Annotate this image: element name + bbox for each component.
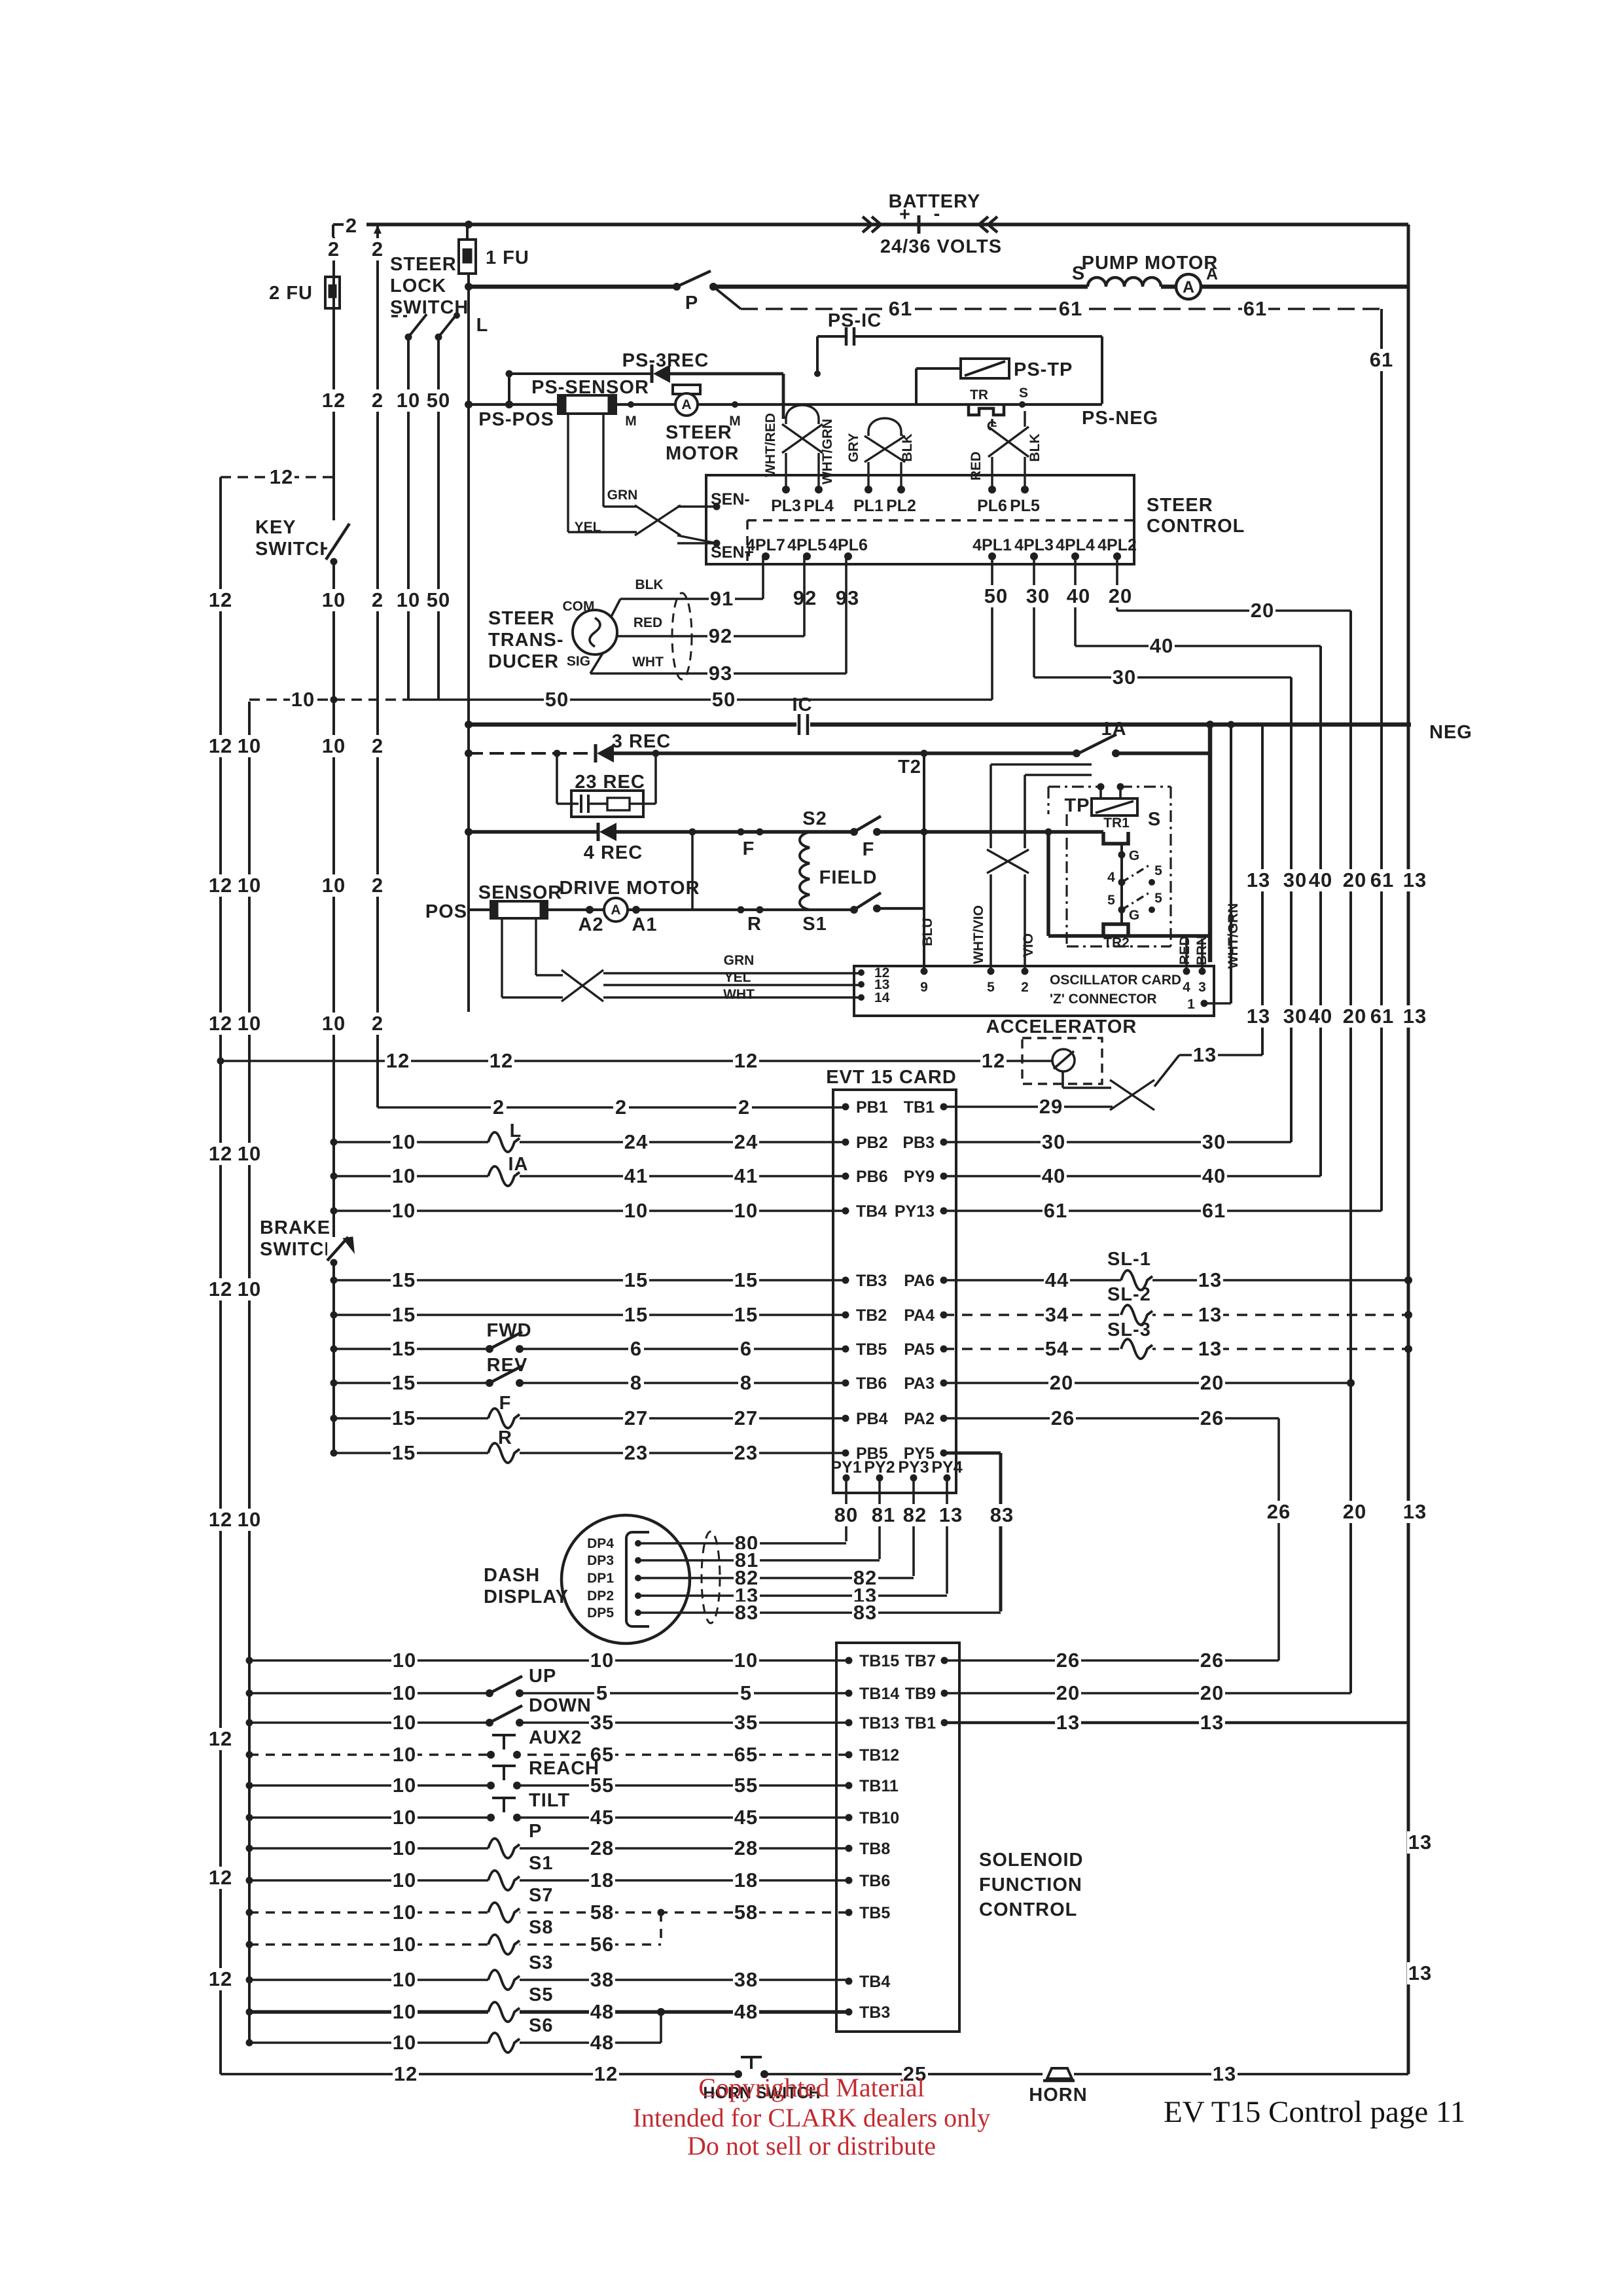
svg-text:TB6: TB6 [856, 1374, 887, 1393]
svg-text:10: 10 [393, 1806, 416, 1829]
svg-text:10: 10 [393, 1968, 416, 1991]
svg-text:CONTROL: CONTROL [979, 1899, 1077, 1920]
svg-text:2: 2 [372, 874, 383, 897]
svg-text:PB6: PB6 [856, 1168, 888, 1186]
svg-text:12: 12 [209, 734, 232, 757]
svg-text:3 REC: 3 REC [612, 731, 671, 752]
svg-text:40: 40 [1042, 1164, 1065, 1187]
svg-text:15: 15 [392, 1303, 416, 1326]
svg-text:SWITCH: SWITCH [260, 1239, 338, 1260]
svg-text:IC: IC [793, 694, 813, 715]
svg-text:10: 10 [238, 1142, 261, 1165]
svg-text:8: 8 [740, 1371, 752, 1394]
svg-text:15: 15 [392, 1337, 416, 1360]
svg-text:10: 10 [393, 1711, 416, 1734]
svg-text:2 FU: 2 FU [269, 283, 313, 304]
svg-text:4PL2: 4PL2 [1097, 536, 1137, 554]
svg-text:20: 20 [1343, 1500, 1366, 1523]
svg-text:10: 10 [238, 734, 261, 757]
svg-text:40: 40 [1067, 584, 1090, 607]
svg-text:PY3: PY3 [898, 1458, 929, 1477]
svg-text:TB6: TB6 [859, 1872, 890, 1890]
svg-text:24: 24 [624, 1130, 648, 1153]
svg-text:10: 10 [393, 1743, 416, 1766]
svg-text:S1: S1 [529, 1853, 553, 1874]
svg-text:PA4: PA4 [904, 1306, 935, 1325]
svg-text:MOTOR: MOTOR [666, 443, 739, 464]
svg-text:Do not sell or distribute: Do not sell or distribute [687, 2131, 936, 2161]
svg-text:PA2: PA2 [904, 1410, 935, 1428]
svg-text:50: 50 [984, 584, 1008, 607]
svg-text:13: 13 [939, 1503, 963, 1526]
svg-text:4: 4 [1183, 980, 1190, 995]
svg-text:PL5: PL5 [1010, 497, 1040, 515]
svg-text:20: 20 [1200, 1371, 1224, 1394]
svg-text:DASH: DASH [484, 1565, 540, 1586]
svg-text:P: P [685, 293, 698, 314]
svg-text:S6: S6 [529, 2015, 553, 2036]
svg-text:POS: POS [425, 901, 467, 922]
svg-text:DP5: DP5 [587, 1605, 614, 1621]
svg-text:8: 8 [630, 1371, 642, 1394]
svg-text:TRANS-: TRANS- [488, 630, 564, 651]
svg-text:A1: A1 [632, 914, 657, 935]
svg-text:14: 14 [874, 990, 890, 1005]
svg-text:10: 10 [238, 874, 261, 897]
svg-text:TILT: TILT [529, 1790, 570, 1811]
svg-text:2: 2 [372, 734, 383, 757]
svg-text:R: R [747, 914, 762, 935]
svg-text:TR: TR [970, 387, 988, 403]
svg-text:10: 10 [393, 1681, 416, 1704]
svg-text:15: 15 [392, 1371, 416, 1394]
svg-text:40: 40 [1309, 1005, 1332, 1028]
svg-text:KEY: KEY [255, 517, 296, 538]
svg-text:PA3: PA3 [904, 1374, 935, 1393]
svg-text:S: S [1019, 386, 1028, 401]
svg-text:CONTROL: CONTROL [1147, 516, 1245, 537]
svg-text:23 REC: 23 REC [575, 772, 645, 793]
svg-text:M: M [625, 414, 637, 429]
svg-text:WHT: WHT [632, 655, 664, 670]
svg-text:1A: 1A [1101, 719, 1126, 740]
svg-text:12: 12 [386, 1049, 410, 1072]
svg-text:23: 23 [734, 1441, 758, 1464]
svg-text:SL-2: SL-2 [1107, 1284, 1151, 1305]
svg-text:TR1: TR1 [1103, 816, 1130, 831]
svg-text:TB5: TB5 [856, 1340, 887, 1359]
svg-text:20: 20 [1343, 869, 1366, 891]
svg-text:10: 10 [393, 1869, 416, 1892]
svg-text:12: 12 [209, 1012, 232, 1035]
svg-text:48: 48 [734, 2000, 758, 2023]
svg-text:4: 4 [1107, 870, 1115, 885]
svg-text:15: 15 [734, 1268, 758, 1291]
svg-text:26: 26 [1056, 1649, 1080, 1672]
svg-text:STEER: STEER [390, 254, 457, 275]
svg-text:PS-SENSOR: PS-SENSOR [531, 377, 649, 398]
svg-text:30: 30 [1113, 666, 1136, 689]
svg-text:YEL: YEL [724, 970, 751, 985]
svg-text:5: 5 [740, 1681, 752, 1704]
svg-text:PL6: PL6 [977, 497, 1007, 515]
svg-text:STEER: STEER [666, 422, 732, 443]
svg-text:10: 10 [397, 588, 420, 611]
svg-text:DRIVE MOTOR: DRIVE MOTOR [559, 878, 700, 899]
svg-text:PA6: PA6 [904, 1272, 935, 1290]
svg-text:12: 12 [394, 2062, 418, 2085]
svg-text:30: 30 [1283, 869, 1307, 891]
svg-text:5: 5 [596, 1681, 608, 1704]
svg-text:12: 12 [734, 1049, 758, 1072]
svg-text:38: 38 [734, 1968, 758, 1991]
svg-text:81: 81 [872, 1503, 895, 1526]
svg-text:S7: S7 [529, 1885, 553, 1906]
svg-text:18: 18 [734, 1869, 758, 1892]
svg-text:10: 10 [734, 1649, 758, 1672]
svg-text:12: 12 [594, 2062, 618, 2085]
svg-text:SIG: SIG [567, 654, 590, 669]
svg-text:91: 91 [710, 587, 734, 610]
svg-text:4 REC: 4 REC [584, 842, 643, 863]
svg-text:PY9: PY9 [904, 1168, 935, 1186]
svg-text:26: 26 [1200, 1649, 1224, 1672]
svg-text:2: 2 [493, 1096, 505, 1119]
svg-text:SWITCH: SWITCH [255, 539, 334, 560]
svg-text:10: 10 [393, 1649, 416, 1672]
svg-text:20: 20 [1050, 1371, 1073, 1394]
svg-text:PY1: PY1 [830, 1458, 861, 1477]
svg-text:10: 10 [238, 1012, 261, 1035]
svg-text:FWD: FWD [486, 1320, 531, 1341]
svg-text:45: 45 [590, 1806, 614, 1829]
svg-text:PS-3REC: PS-3REC [622, 350, 709, 371]
svg-text:4PL7: 4PL7 [746, 536, 785, 554]
svg-text:2: 2 [346, 214, 357, 237]
svg-text:PA5: PA5 [904, 1340, 935, 1359]
svg-text:AUX2: AUX2 [529, 1727, 582, 1748]
svg-text:2: 2 [328, 238, 340, 260]
svg-text:29: 29 [1039, 1095, 1063, 1118]
svg-text:TB4: TB4 [856, 1202, 887, 1221]
svg-text:ACCELERATOR: ACCELERATOR [986, 1016, 1137, 1037]
svg-text:EV T15 Control page 11: EV T15 Control page 11 [1164, 2095, 1465, 2129]
svg-text:45: 45 [734, 1806, 758, 1829]
svg-text:G: G [1129, 908, 1139, 923]
svg-text:40: 40 [1309, 869, 1332, 891]
svg-text:R: R [498, 1427, 512, 1448]
svg-text:A: A [1183, 278, 1194, 296]
svg-text:30: 30 [1026, 584, 1050, 607]
svg-text:93: 93 [709, 662, 732, 685]
svg-text:DISPLAY: DISPLAY [484, 1587, 569, 1607]
svg-text:10: 10 [734, 1199, 758, 1222]
svg-text:PY4: PY4 [931, 1458, 962, 1477]
svg-text:DP4: DP4 [587, 1536, 614, 1551]
svg-text:FUNCTION: FUNCTION [979, 1874, 1082, 1895]
svg-text:61: 61 [1370, 1005, 1394, 1028]
svg-text:13: 13 [1198, 1303, 1222, 1326]
svg-text:F: F [499, 1393, 512, 1414]
svg-text:S2: S2 [802, 808, 827, 829]
svg-text:56: 56 [590, 1933, 614, 1956]
svg-text:OSCILLATOR CARD: OSCILLATOR CARD [1050, 973, 1181, 988]
svg-text:STEER: STEER [488, 608, 555, 629]
svg-text:61: 61 [1044, 1199, 1067, 1222]
svg-text:S3: S3 [529, 1952, 553, 1973]
svg-text:20: 20 [1200, 1681, 1224, 1704]
svg-text:PS-IC: PS-IC [828, 310, 882, 331]
svg-text:PS-NEG: PS-NEG [1082, 408, 1158, 429]
svg-text:NEG: NEG [1429, 722, 1472, 743]
svg-text:HORN: HORN [1029, 2085, 1087, 2106]
svg-text:BLU: BLU [920, 918, 935, 946]
svg-text:GRY: GRY [846, 433, 861, 463]
svg-text:34: 34 [1045, 1303, 1069, 1326]
svg-text:UP: UP [529, 1666, 556, 1687]
svg-text:41: 41 [624, 1164, 648, 1187]
svg-text:PL3: PL3 [771, 497, 801, 515]
svg-text:10: 10 [322, 588, 346, 611]
svg-text:4PL5: 4PL5 [787, 536, 827, 554]
svg-text:S8: S8 [529, 1917, 553, 1938]
svg-text:DOWN: DOWN [529, 1695, 592, 1716]
svg-text:T2: T2 [898, 757, 921, 778]
svg-text:13: 13 [1408, 1962, 1432, 1984]
svg-text:10: 10 [590, 1649, 614, 1672]
svg-text:12: 12 [209, 1727, 232, 1750]
svg-text:GRN: GRN [724, 953, 755, 968]
svg-text:12: 12 [322, 389, 346, 412]
svg-text:WHT/VIO: WHT/VIO [971, 905, 986, 964]
svg-text:EVT 15 CARD: EVT 15 CARD [826, 1067, 957, 1088]
svg-text:10: 10 [392, 1130, 416, 1153]
svg-text:13: 13 [1198, 1268, 1222, 1291]
svg-text:12: 12 [209, 1508, 232, 1531]
svg-text:23: 23 [624, 1441, 648, 1464]
svg-text:26: 26 [1051, 1407, 1075, 1429]
svg-text:PL1: PL1 [853, 497, 883, 515]
svg-text:9: 9 [920, 980, 928, 995]
svg-text:40: 40 [1202, 1164, 1226, 1187]
svg-text:A: A [681, 397, 691, 412]
svg-text:PB1: PB1 [856, 1098, 888, 1117]
svg-text:4PL1: 4PL1 [972, 536, 1012, 554]
svg-text:15: 15 [624, 1303, 648, 1326]
svg-text:10: 10 [322, 1012, 346, 1035]
svg-text:PY13: PY13 [895, 1202, 935, 1221]
svg-text:DUCER: DUCER [488, 651, 559, 672]
svg-text:10: 10 [238, 1508, 261, 1531]
svg-text:15: 15 [624, 1268, 648, 1291]
svg-text:TB3: TB3 [859, 2003, 890, 2022]
svg-text:48: 48 [590, 2031, 614, 2054]
svg-text:4PL6: 4PL6 [829, 536, 868, 554]
svg-text:TB2: TB2 [856, 1306, 887, 1325]
svg-text:20: 20 [1109, 584, 1132, 607]
svg-text:PB3: PB3 [902, 1134, 935, 1152]
svg-text:12: 12 [209, 874, 232, 897]
svg-text:15: 15 [392, 1441, 416, 1464]
svg-text:58: 58 [590, 1901, 614, 1924]
svg-text:10: 10 [322, 874, 346, 897]
svg-text:PL2: PL2 [886, 497, 916, 515]
svg-text:82: 82 [903, 1503, 927, 1526]
svg-text:6: 6 [740, 1337, 752, 1360]
svg-text:12: 12 [209, 1278, 232, 1300]
svg-text:61: 61 [889, 297, 912, 320]
svg-text:TP: TP [1064, 795, 1090, 816]
svg-text:41: 41 [734, 1164, 758, 1187]
svg-text:44: 44 [1045, 1268, 1069, 1291]
svg-text:REV: REV [487, 1355, 528, 1376]
svg-text:10: 10 [393, 1837, 416, 1859]
svg-text:13: 13 [1198, 1337, 1222, 1360]
svg-text:G: G [1129, 848, 1139, 863]
svg-text:61: 61 [1243, 297, 1267, 320]
svg-text:54: 54 [1045, 1337, 1069, 1360]
svg-text:TB11: TB11 [859, 1777, 899, 1795]
svg-text:27: 27 [734, 1407, 758, 1429]
svg-text:2: 2 [372, 238, 383, 260]
svg-text:2: 2 [1021, 980, 1029, 995]
svg-text:13: 13 [1247, 1005, 1270, 1028]
svg-text:2: 2 [738, 1096, 750, 1119]
svg-text:15: 15 [392, 1407, 416, 1429]
svg-text:2: 2 [615, 1096, 627, 1119]
svg-text:LOCK: LOCK [390, 276, 446, 296]
svg-text:COM: COM [563, 599, 595, 614]
svg-text:PB2: PB2 [856, 1134, 888, 1152]
svg-text:27: 27 [624, 1407, 648, 1429]
svg-text:30: 30 [1283, 1005, 1307, 1028]
svg-text:40: 40 [1150, 634, 1173, 657]
svg-text:6: 6 [630, 1337, 642, 1360]
svg-text:26: 26 [1200, 1407, 1224, 1429]
svg-text:L: L [476, 315, 489, 336]
svg-text:P: P [529, 1821, 542, 1842]
svg-text:2: 2 [372, 588, 383, 611]
svg-text:61: 61 [1202, 1199, 1226, 1222]
svg-text:13: 13 [1247, 869, 1270, 891]
svg-text:FIELD: FIELD [819, 867, 878, 888]
svg-text:50: 50 [427, 588, 450, 611]
svg-text:PY2: PY2 [864, 1458, 895, 1477]
svg-text:PS-POS: PS-POS [478, 409, 554, 430]
svg-text:58: 58 [734, 1901, 758, 1924]
svg-text:F: F [863, 839, 875, 860]
svg-text:A: A [611, 903, 620, 918]
svg-text:BATTERY: BATTERY [889, 191, 981, 212]
svg-text:2: 2 [372, 389, 383, 412]
svg-text:TR2: TR2 [1103, 935, 1130, 950]
svg-text:12: 12 [982, 1049, 1005, 1072]
svg-text:30: 30 [1202, 1130, 1226, 1153]
svg-text:13: 13 [1403, 1500, 1427, 1523]
svg-text:1 FU: 1 FU [486, 247, 529, 268]
svg-text:10: 10 [322, 734, 346, 757]
svg-text:BLK: BLK [1027, 433, 1043, 461]
svg-text:F: F [743, 838, 755, 859]
svg-text:26: 26 [1267, 1500, 1291, 1523]
svg-text:S: S [1148, 809, 1161, 830]
svg-text:12: 12 [209, 1866, 232, 1889]
svg-text:TB7: TB7 [905, 1652, 936, 1670]
svg-text:5: 5 [1154, 891, 1162, 906]
svg-text:12: 12 [209, 1967, 232, 1990]
svg-text:30: 30 [1042, 1130, 1065, 1153]
svg-text:13: 13 [1403, 869, 1427, 891]
svg-text:10: 10 [393, 1774, 416, 1797]
svg-text:YEL: YEL [575, 520, 601, 535]
svg-text:3: 3 [1198, 980, 1206, 995]
svg-text:BLK: BLK [635, 577, 663, 592]
svg-text:PUMP MOTOR: PUMP MOTOR [1082, 253, 1219, 274]
svg-text:80: 80 [834, 1503, 858, 1526]
svg-text:TB5: TB5 [859, 1904, 890, 1922]
svg-text:35: 35 [734, 1711, 758, 1734]
svg-text:35: 35 [590, 1711, 614, 1734]
svg-text:REACH: REACH [529, 1758, 599, 1779]
svg-text:83: 83 [990, 1503, 1014, 1526]
svg-text:50: 50 [712, 688, 736, 711]
svg-text:S5: S5 [529, 1984, 553, 2005]
svg-text:61: 61 [1370, 348, 1393, 371]
svg-text:10: 10 [393, 2000, 416, 2023]
svg-text:61: 61 [1059, 297, 1082, 320]
svg-text:STEER: STEER [1147, 495, 1213, 516]
svg-text:TB1: TB1 [905, 1714, 936, 1732]
svg-text:A2: A2 [578, 914, 603, 935]
svg-text:5: 5 [1107, 893, 1115, 908]
svg-text:TB12: TB12 [859, 1746, 899, 1765]
svg-text:RED: RED [633, 615, 662, 630]
svg-text:15: 15 [392, 1268, 416, 1291]
svg-text:13: 13 [1403, 1005, 1427, 1028]
svg-text:12: 12 [490, 1049, 513, 1072]
svg-text:'Z' CONNECTOR: 'Z' CONNECTOR [1050, 992, 1157, 1007]
svg-text:WHT: WHT [723, 987, 755, 1002]
svg-text:28: 28 [734, 1837, 758, 1859]
svg-text:PS-TP: PS-TP [1014, 359, 1073, 380]
svg-text:15: 15 [734, 1303, 758, 1326]
svg-text:5: 5 [987, 980, 995, 995]
svg-text:GRN: GRN [607, 488, 638, 503]
svg-text:48: 48 [590, 2000, 614, 2023]
svg-text:DP2: DP2 [587, 1588, 614, 1604]
svg-text:TB14: TB14 [859, 1685, 899, 1703]
svg-text:TB10: TB10 [859, 1809, 899, 1827]
svg-text:92: 92 [709, 624, 732, 647]
svg-text:WHT/GRN: WHT/GRN [1226, 903, 1241, 969]
svg-text:2: 2 [372, 1012, 383, 1035]
svg-text:TB1: TB1 [904, 1098, 935, 1117]
svg-text:13: 13 [1408, 1831, 1432, 1854]
svg-text:IA: IA [508, 1154, 529, 1175]
svg-text:28: 28 [590, 1837, 614, 1859]
svg-text:BRAKE: BRAKE [260, 1217, 330, 1238]
svg-text:SOLENOID: SOLENOID [979, 1850, 1083, 1871]
svg-text:TB4: TB4 [859, 1973, 890, 1991]
svg-text:24: 24 [734, 1130, 758, 1153]
svg-text:PB4: PB4 [856, 1410, 888, 1428]
svg-text:50: 50 [545, 688, 569, 711]
svg-text:10: 10 [291, 688, 315, 711]
svg-text:5: 5 [1154, 863, 1162, 878]
svg-text:10: 10 [393, 1901, 416, 1924]
svg-text:13: 13 [1056, 1711, 1080, 1734]
svg-text:13: 13 [1193, 1043, 1217, 1066]
